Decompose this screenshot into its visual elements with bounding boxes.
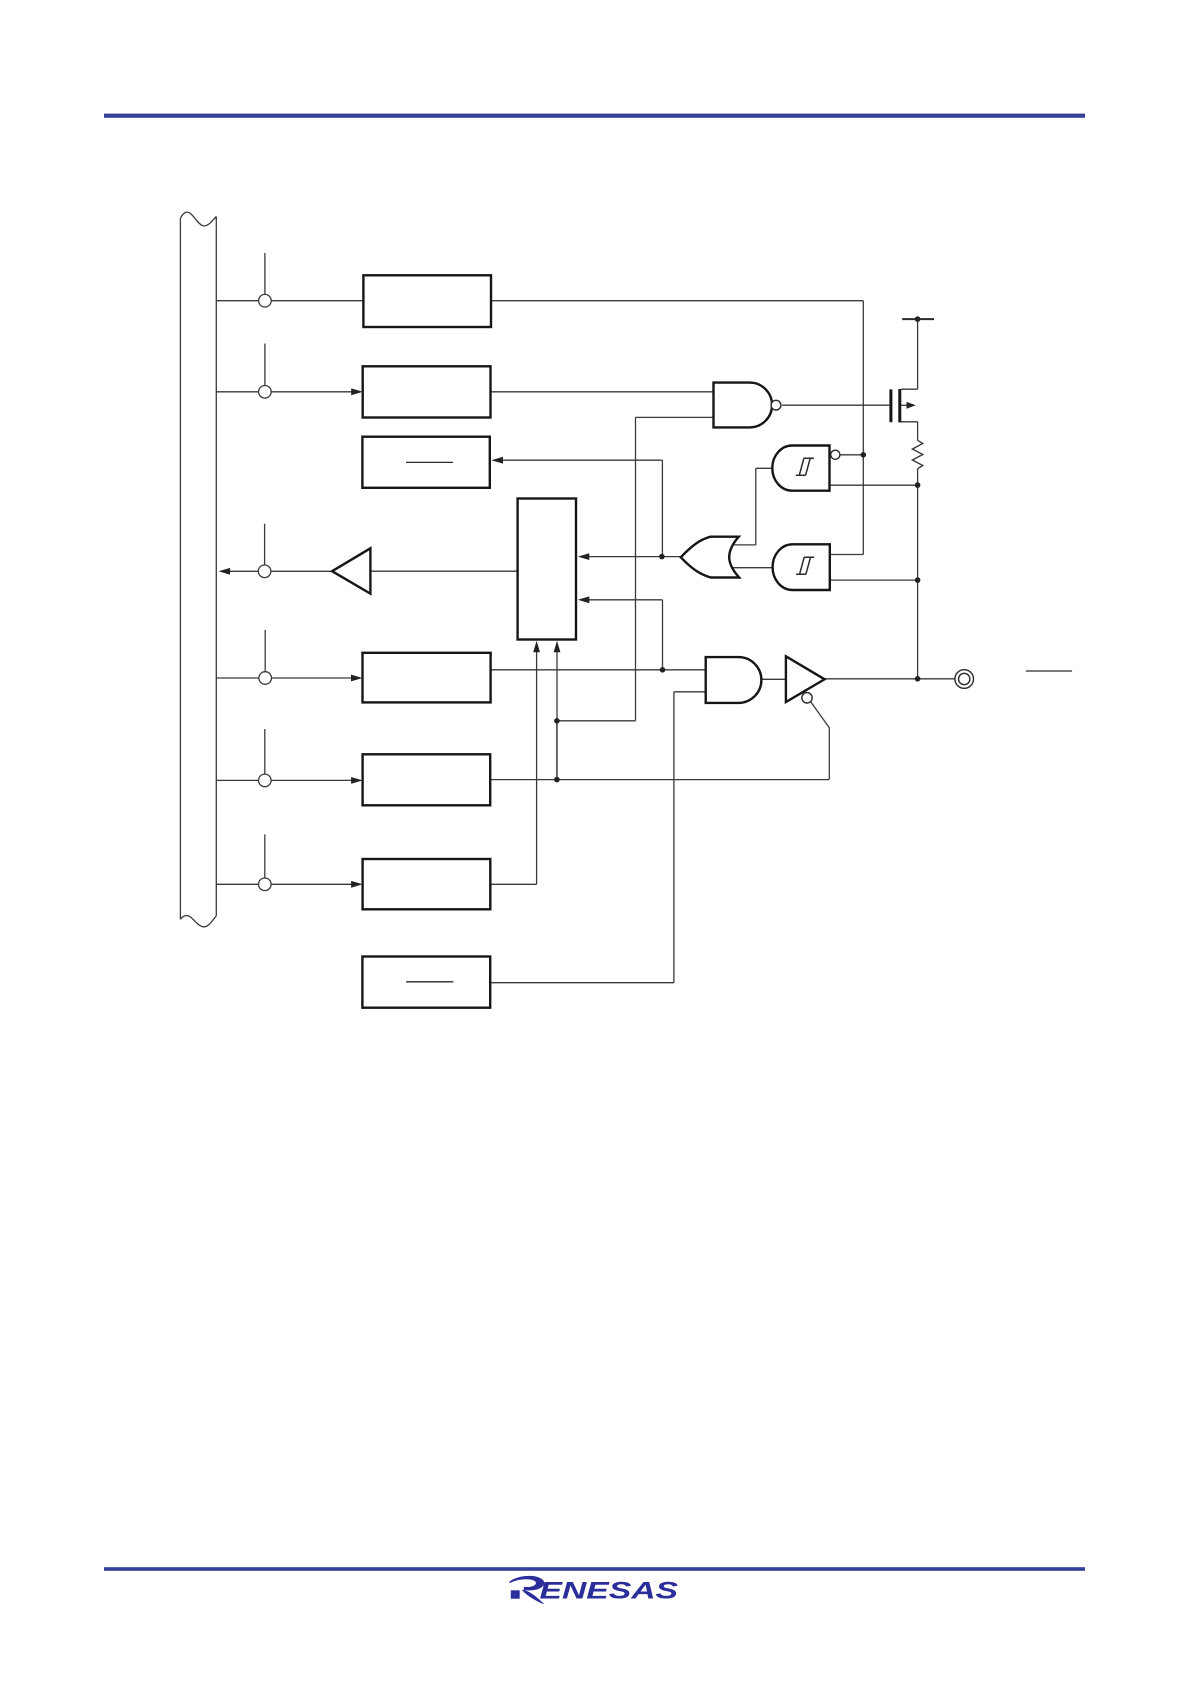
or gate U4 [681, 537, 739, 578]
pmos transistor Q1 gate bar [889, 389, 892, 422]
bus top cap [180, 212, 216, 226]
wire vcc vertical [917, 319, 919, 389]
power supply bar [902, 318, 934, 320]
node circle row1 [259, 294, 272, 307]
wire mpx bottom b [556, 652, 558, 780]
wire gate2 lower pin to pin node [830, 579, 918, 581]
pmos transistor Q1 body arrow [907, 402, 916, 409]
schmitt gate U2 bubble [831, 450, 840, 459]
schmitt gate U3 hysteresis mark [796, 557, 814, 574]
wire box6 output [490, 883, 536, 885]
schmitt gate U2 hysteresis mark [796, 458, 814, 475]
schmitt gate U2 [772, 446, 829, 491]
wire node PD horizontal [557, 720, 636, 722]
and gate U5 [706, 657, 762, 703]
junction dot box4 output [660, 667, 666, 673]
wire box7 output [490, 982, 674, 984]
register box6 [363, 859, 491, 909]
wire gate1 bubble to node [839, 454, 863, 456]
footer rule [104, 1567, 1085, 1571]
wire gate1 output [756, 467, 773, 469]
wire box5 output [490, 779, 829, 781]
wire or top input [734, 544, 756, 546]
node circle row2 [259, 386, 272, 399]
renesas logo [510, 1576, 679, 1605]
pmos transistor Q1 drain lead [901, 421, 918, 423]
wire row3 stub [264, 524, 266, 565]
wire node PD to nand vertical [556, 721, 558, 780]
wire pin node vertical [917, 469, 919, 679]
wire box7 vertical [673, 692, 675, 983]
bus left edge [179, 219, 181, 920]
wire row4 stub [264, 630, 266, 672]
wire row2 stub [264, 344, 266, 386]
wire nand lower input vertical [635, 417, 637, 720]
wire buffer enable diagonal [811, 702, 830, 728]
arrowhead into box6 [351, 881, 363, 888]
wire buffer enable vertical [828, 728, 830, 780]
wire mosfet drain [917, 422, 919, 441]
node circle row4 [259, 672, 272, 685]
pmos transistor Q1 source lead [901, 388, 918, 390]
schmitt gate U3 [773, 544, 830, 590]
read buffer triangle [332, 548, 370, 593]
junction dot node PD lower [554, 777, 560, 783]
arrowhead into box4 [351, 675, 363, 682]
wire buffer output to pad [825, 678, 955, 680]
register box4 [363, 653, 491, 703]
wire row6 bus to box6 [216, 883, 352, 885]
box7 label overbar [406, 981, 453, 983]
arrowhead into box3 [492, 457, 504, 464]
wire mpx bottom a from box6 [536, 652, 538, 885]
wire nand lower input horizontal [636, 416, 714, 418]
wire row5 stub [264, 729, 266, 774]
wire row4 bus to box4 [216, 677, 352, 679]
header rule [104, 114, 1085, 118]
node circle row6 [259, 878, 272, 891]
arrowhead into box5 [351, 777, 363, 784]
nand gate U1 [714, 383, 773, 428]
wire row2 bus to box2 [216, 391, 352, 393]
wire gate2 output to or [733, 567, 773, 569]
register box7 [362, 957, 490, 1008]
register box3 [362, 437, 489, 488]
junction dot vcc [915, 316, 921, 322]
arrowhead into box2 [351, 388, 363, 395]
box3 label overbar [406, 461, 453, 463]
wire box3 vertical [661, 460, 663, 556]
bus right edge [215, 217, 217, 916]
pmos transistor Q1 body lead [901, 404, 909, 406]
bus bottom cap [180, 916, 216, 927]
arrowhead mpx bottom b [554, 641, 561, 653]
wire row1 stub [264, 253, 266, 294]
wire mpx input2 vertical [662, 600, 664, 670]
tristate buffer U6 enable bubble [802, 693, 812, 703]
node circle row5 [259, 774, 272, 787]
arrowhead mpx input1 [578, 553, 590, 560]
wire or output to mpx [588, 556, 681, 558]
io pad outer ring [955, 670, 974, 689]
pmos transistor Q1 channel bar [898, 389, 901, 422]
wire gate2 top pin [830, 554, 864, 556]
wire row3 bus arrow to buffer [229, 570, 332, 572]
junction dot pin node upper [915, 482, 921, 488]
junction dot pin node mid [915, 577, 921, 583]
wire box1 output [491, 300, 863, 302]
register box1 [363, 275, 491, 327]
wire buffer to mpx [370, 570, 517, 572]
io pad inner ring [959, 673, 970, 684]
wire row5 bus to box5 [216, 779, 352, 781]
register box2 [363, 366, 491, 417]
nand gate U1 bubble [771, 400, 781, 410]
pull-up resistor R1 [912, 440, 922, 468]
wire and to buffer [761, 678, 786, 680]
wire nand output to mosfet gate [782, 404, 889, 406]
wire row6 stub [264, 834, 266, 878]
pad label overbar [1026, 670, 1072, 672]
wire into box3 [493, 459, 662, 461]
junction dot pin node output [915, 676, 921, 682]
wire box4 output to and gate [491, 669, 706, 671]
register box5 [363, 754, 491, 805]
junction dot or output [659, 554, 665, 560]
wire row1 bus to box1 [216, 300, 363, 302]
wire gate1 lower pin to pin node [830, 484, 918, 486]
svg-text:ENESAS: ENESAS [540, 1577, 679, 1604]
arrowhead mpx input2 [578, 596, 590, 603]
mpx box [518, 499, 576, 640]
arrowhead into bus row3 [219, 568, 231, 575]
wire box2 output to NAND [491, 391, 714, 393]
arrowhead mpx bottom a [533, 641, 540, 653]
node circle row3 [258, 565, 271, 578]
wire mpx input2 [588, 599, 663, 601]
tristate buffer U6 [786, 656, 825, 702]
wire gate1 output vertical [755, 468, 757, 545]
junction dot node PD upper [554, 718, 560, 724]
wire node IE vertical [862, 301, 864, 555]
junction dot gate1 bubble node [861, 452, 867, 458]
wire box7 to and gate [674, 691, 706, 693]
